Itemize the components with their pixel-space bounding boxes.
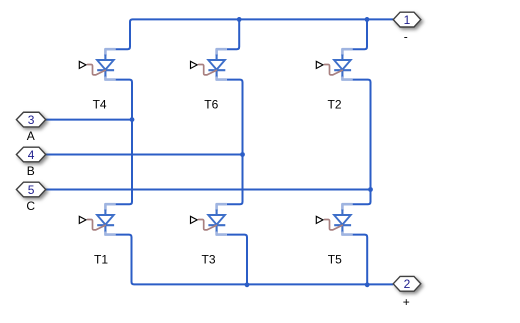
svg-text:T2: T2 xyxy=(327,97,341,111)
svg-text:1: 1 xyxy=(404,13,411,27)
svg-text:T6: T6 xyxy=(204,97,218,111)
wire: T3 cathode to bottom bus xyxy=(227,235,247,285)
junction: node B xyxy=(240,152,245,157)
svg-text:-: - xyxy=(404,30,408,44)
wire: phase C vertical T2 cathode to T5 anode xyxy=(353,80,371,205)
wire: T2 anode riser to top bus xyxy=(353,19,367,49)
svg-text:3: 3 xyxy=(28,113,35,127)
svg-text:T5: T5 xyxy=(328,252,342,266)
port 3 hexagon xyxy=(16,112,45,127)
junction: T2 riser on top bus xyxy=(365,17,370,22)
wire: phase B input from port 4 xyxy=(46,154,243,156)
svg-text:2: 2 xyxy=(404,277,411,291)
thyristor T5 xyxy=(316,204,352,234)
port 4 hexagon xyxy=(16,147,45,162)
thyristor T2 xyxy=(316,49,352,79)
wire: phase B vertical T6 cathode to T3 anode xyxy=(227,80,243,205)
svg-text:+: + xyxy=(403,295,410,309)
wire: T4 anode riser and top bus to port 1 xyxy=(116,19,394,49)
port 5 hexagon xyxy=(16,182,45,197)
thyristor T3 xyxy=(191,204,227,234)
thyristor T6 xyxy=(191,49,227,79)
junction: node A xyxy=(130,117,135,122)
svg-text:T4: T4 xyxy=(93,97,107,111)
svg-text:B: B xyxy=(27,164,35,178)
junction: T3 on bottom bus xyxy=(245,282,250,287)
thyristor T1 xyxy=(79,204,115,234)
svg-text:5: 5 xyxy=(28,183,35,197)
wire: T6 anode riser to top bus xyxy=(227,19,239,49)
junction: T6 riser on top bus xyxy=(237,17,242,22)
wire: T1 cathode and bottom bus to port 2 xyxy=(116,235,394,285)
svg-text:A: A xyxy=(27,129,35,143)
junction: T5 on bottom bus xyxy=(365,282,370,287)
wire: T5 cathode to bottom bus xyxy=(353,235,368,285)
wire: phase A vertical T4 cathode to T1 anode xyxy=(116,80,132,205)
svg-text:T1: T1 xyxy=(94,252,108,266)
port 1 hexagon xyxy=(393,12,421,27)
wire: phase C input from port 5 xyxy=(46,189,371,191)
svg-text:C: C xyxy=(26,199,35,213)
wire: phase A input from port 3 xyxy=(46,119,132,121)
svg-text:4: 4 xyxy=(28,148,35,162)
svg-text:T3: T3 xyxy=(201,252,215,266)
thyristor T4 xyxy=(79,49,115,79)
port 2 hexagon xyxy=(393,276,421,291)
junction: node C xyxy=(368,187,373,192)
